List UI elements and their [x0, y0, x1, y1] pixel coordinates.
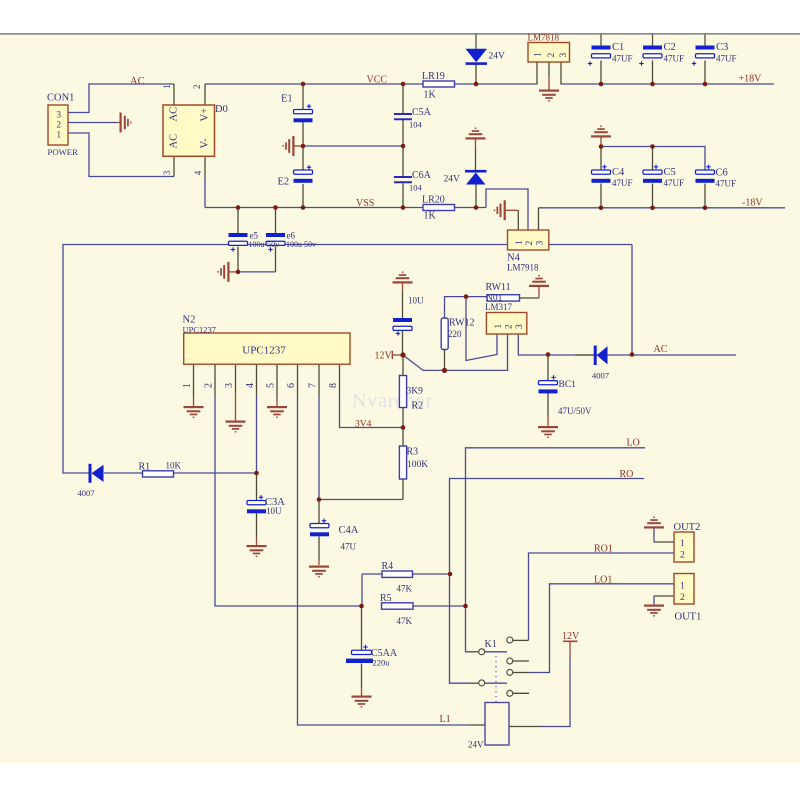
svg-text:1: 1	[57, 130, 62, 140]
resistor R2	[399, 376, 406, 408]
svg-text:47UF: 47UF	[612, 54, 633, 64]
LM7818 pin1 lead	[536, 62, 538, 85]
12V relay terminal stem	[569, 642, 571, 658]
C5AA ground stem	[361, 688, 363, 696]
svg-text:R3: R3	[407, 447, 419, 458]
svg-text:47UF: 47UF	[664, 54, 685, 64]
svg-text:C6: C6	[716, 168, 728, 179]
svg-text:10U: 10U	[408, 296, 424, 306]
R3 bottom lead	[402, 479, 404, 500]
svg-text:V+: V+	[199, 108, 210, 122]
svg-text:+18V: +18V	[739, 74, 763, 85]
svg-text:C4A: C4A	[339, 525, 359, 536]
wire AC detect long run	[63, 245, 632, 474]
svg-text:47UF: 47UF	[716, 54, 737, 64]
C4 bottom lead	[600, 184, 602, 208]
svg-text:R1: R1	[139, 462, 151, 473]
C1 bottom lead	[600, 61, 602, 85]
svg-text:3: 3	[162, 170, 172, 175]
svg-text:AC: AC	[654, 344, 668, 355]
ground N2 pin1	[184, 406, 204, 418]
e6 top lead	[275, 208, 277, 234]
svg-text:47U/50V: 47U/50V	[558, 406, 592, 416]
connector OUT1	[674, 574, 694, 605]
wire R4 left	[362, 573, 382, 575]
resistor LR19	[423, 81, 455, 87]
E2 top lead	[302, 146, 304, 170]
wire RW12 top to RW11	[445, 297, 487, 318]
top crop border gray line	[0, 33, 800, 35]
regulator N4 LM7918	[508, 230, 549, 250]
BC1 ground stem	[547, 415, 549, 426]
D2 ground stem	[475, 140, 477, 149]
D0 pin2 lead	[204, 84, 206, 105]
resistor RW12	[441, 318, 448, 350]
RW11 right lead	[520, 297, 540, 299]
C6A top lead	[402, 146, 404, 176]
D0 pin1 lead	[173, 84, 175, 105]
ground OUT1	[644, 605, 664, 617]
wire VSS rail	[205, 207, 486, 209]
svg-text:C5: C5	[664, 167, 676, 178]
diode D2 24V	[465, 170, 487, 185]
ground C5AA	[352, 696, 372, 708]
ground E1E2 mid (left-pointing)	[283, 136, 295, 156]
svg-text:12V: 12V	[375, 351, 393, 362]
wire K1 stub NC1	[513, 660, 529, 662]
svg-text:10K: 10K	[166, 461, 182, 471]
capacitor C2	[643, 46, 662, 58]
svg-text:K1: K1	[485, 639, 497, 650]
RW11 ground stem	[538, 287, 540, 298]
C5AA bottom lead	[361, 664, 363, 689]
wire VSS jog to N4 pin2	[486, 189, 528, 230]
svg-text:1: 1	[680, 539, 685, 549]
resistor LR20	[423, 205, 455, 211]
ground N2 pin5	[267, 406, 287, 418]
C2 bottom lead	[652, 61, 654, 85]
wire diode D3 to R1	[104, 472, 143, 474]
svg-text:1: 1	[534, 52, 544, 57]
wire CON1 pin1 to D0 pin3	[68, 133, 174, 177]
resistor RW11	[487, 295, 520, 301]
svg-text:C4: C4	[612, 167, 625, 178]
ground LM7818 pin2	[539, 90, 559, 102]
wire N2 pin8 3V4	[340, 396, 404, 428]
wire OUT1 pin2 to ground	[654, 595, 674, 597]
C4 ground stem	[600, 138, 602, 147]
N2 pin6 lead	[297, 364, 299, 396]
IC N2 UPC1237 box	[184, 333, 350, 364]
N2 pin8 lead	[339, 364, 341, 396]
wire K1 stub NC2	[513, 692, 529, 694]
ground above D2 (up-pointing)	[466, 128, 486, 140]
svg-text:LO: LO	[627, 438, 640, 449]
D1 top stub	[475, 34, 477, 49]
svg-text:6: 6	[286, 383, 297, 388]
wire 12V node diag bus to N1 pin2	[403, 334, 508, 370]
svg-text:3K9: 3K9	[407, 387, 424, 397]
C6 bottom lead	[704, 184, 706, 208]
R2 top lead	[402, 355, 404, 376]
ground C3A	[247, 545, 267, 557]
svg-text:104: 104	[409, 120, 423, 130]
e5 ground stem	[230, 271, 239, 273]
ground C4A	[309, 566, 329, 578]
capacitor C5A	[394, 114, 412, 119]
svg-text:OUT2: OUT2	[674, 522, 701, 533]
svg-text:4: 4	[245, 383, 256, 388]
svg-text:e5: e5	[250, 231, 259, 241]
LM7818 pin2 lead	[548, 62, 550, 76]
D2 bottom lead	[475, 185, 477, 208]
regulator N1 LM317	[486, 313, 526, 335]
ground e5e6 (left-pointing)	[218, 262, 230, 282]
C5 top lead	[652, 147, 654, 171]
N2 pin3 lead	[235, 364, 237, 392]
wire +18V rail right of LM7818	[561, 83, 774, 85]
wire RO run	[450, 479, 645, 684]
wire K1 throw2 to LO1	[529, 584, 675, 673]
diode D1 24V	[466, 49, 488, 65]
C4A bottom lead	[318, 537, 320, 560]
svg-text:2: 2	[680, 593, 685, 603]
D2 top lead	[475, 149, 477, 171]
svg-text:1: 1	[182, 383, 193, 388]
svg-text:CON1: CON1	[47, 93, 74, 104]
svg-text:C6A: C6A	[412, 170, 432, 181]
wire VCC rail left of LM7818	[205, 83, 537, 85]
svg-text:LM7918: LM7918	[507, 263, 539, 273]
svg-text:1: 1	[515, 240, 525, 245]
svg-text:C5A: C5A	[412, 107, 432, 118]
ground OUT2 (up-pointing)	[644, 517, 664, 529]
svg-text:LM317: LM317	[485, 302, 513, 312]
capacitor C3	[696, 46, 715, 58]
wire N2 pin6 down to relay coil	[298, 396, 471, 725]
svg-text:R4: R4	[382, 561, 394, 572]
svg-text:C2: C2	[664, 42, 676, 53]
N4 pin3 lead	[538, 208, 540, 230]
wire -18V rail	[539, 207, 786, 209]
N4 pin1 lead	[517, 210, 519, 230]
capacitor e6	[266, 233, 285, 245]
ground above 10U (up-pointing)	[393, 272, 413, 284]
wire R5 right	[413, 605, 466, 607]
svg-text:AC: AC	[130, 76, 145, 87]
svg-text:C3: C3	[716, 42, 728, 53]
diode D3 4007	[89, 464, 104, 483]
svg-text:100K: 100K	[407, 460, 428, 470]
wire R4-R5 left link	[361, 574, 363, 606]
svg-text:1: 1	[494, 324, 504, 329]
switch K1 contact T4	[507, 690, 513, 696]
svg-text:2: 2	[204, 383, 215, 388]
relay K1 actuator dashed line	[495, 656, 497, 702]
svg-text:100u 50v: 100u 50v	[286, 240, 316, 249]
12V terminal tick	[391, 351, 393, 359]
svg-text:47UF: 47UF	[612, 178, 633, 188]
svg-text:8: 8	[328, 383, 339, 388]
svg-text:24V: 24V	[489, 52, 506, 62]
e5 bottom lead	[237, 247, 239, 272]
svg-text:V-: V-	[199, 138, 210, 149]
10U cap top lead	[402, 292, 404, 318]
switch K1 contact T1	[507, 637, 513, 643]
switch K1 contact T3	[507, 669, 513, 675]
C6A bottom lead	[402, 184, 404, 208]
capacitor C1	[592, 46, 611, 58]
capacitor BC1	[539, 381, 558, 394]
switch K1 contact T2	[507, 658, 513, 664]
C5A bottom lead	[402, 120, 404, 146]
D1 bottom lead	[475, 64, 477, 84]
ground above C4 (up-pointing)	[591, 126, 611, 138]
capacitor C5AA	[346, 650, 373, 663]
R2 bottom lead	[402, 408, 404, 428]
svg-text:RW11: RW11	[486, 282, 511, 293]
D0 pin4 lead	[204, 156, 206, 178]
capacitor E2	[294, 170, 313, 183]
capacitor C6A	[394, 177, 412, 182]
svg-text:24V: 24V	[444, 175, 461, 185]
capacitor C6	[696, 170, 715, 183]
wire e5 e6 ground bus	[238, 271, 276, 273]
svg-text:E1: E1	[281, 94, 293, 105]
svg-text:47UF: 47UF	[716, 179, 737, 189]
svg-text:RO: RO	[620, 469, 634, 480]
svg-text:5: 5	[266, 383, 277, 388]
N2 pin3 ground stem	[235, 392, 237, 421]
svg-text:UPC1237: UPC1237	[183, 325, 217, 335]
wire CON1 pin3 to AC top	[68, 84, 174, 113]
svg-text:VCC: VCC	[367, 75, 388, 86]
svg-text:3: 3	[535, 241, 545, 246]
svg-text:220: 220	[448, 329, 462, 339]
svg-text:3V4: 3V4	[355, 420, 372, 430]
svg-text:7: 7	[308, 383, 319, 388]
LM7818 pin3 lead	[560, 62, 562, 85]
svg-text:3: 3	[57, 110, 62, 120]
wire N2 pin4 down	[256, 396, 258, 473]
wire pin7 to R3 bottom	[319, 499, 403, 501]
N2 pin1 lead	[193, 364, 195, 398]
wire K1 blade pole2	[485, 682, 507, 684]
switch K1 contact P2	[479, 680, 485, 686]
wire 12V to relay coil	[540, 658, 570, 727]
capacitor C5	[643, 170, 662, 183]
capacitor E1	[294, 110, 313, 123]
capacitor C4A	[310, 524, 329, 537]
wire N2 pin7 down	[318, 396, 320, 500]
12V relay terminal bar	[563, 640, 578, 642]
wire LO run	[466, 448, 646, 652]
svg-text:OUT1: OUT1	[675, 612, 702, 623]
C4 top lead	[600, 147, 602, 171]
svg-text:2: 2	[680, 551, 685, 561]
svg-text:RO1: RO1	[594, 544, 613, 555]
ground N4 pin1 (left-pointing)	[494, 200, 506, 220]
svg-text:2: 2	[525, 241, 535, 246]
10U cap bottom lead	[402, 331, 404, 356]
capacitor e5	[229, 233, 248, 245]
svg-text:POWER: POWER	[48, 147, 79, 157]
regulator U LM7818	[528, 43, 570, 63]
diode D4 4007	[594, 346, 608, 365]
svg-text:VSS: VSS	[356, 198, 374, 209]
svg-text:D0: D0	[215, 104, 228, 115]
C4A top lead	[318, 500, 320, 524]
svg-text:4007: 4007	[592, 371, 609, 381]
C2 top stub	[652, 34, 654, 46]
svg-text:2: 2	[192, 85, 202, 90]
C5A top lead	[402, 84, 404, 113]
N2 pin4 lead	[256, 364, 258, 396]
wire R4 right	[413, 573, 451, 575]
resistor R5	[382, 603, 414, 609]
svg-text:47U: 47U	[341, 542, 357, 552]
wire N1 pin3 to AC out	[518, 334, 736, 355]
BC1 top lead	[547, 355, 549, 381]
svg-text:47K: 47K	[397, 584, 413, 594]
C3A bottom lead	[256, 512, 258, 538]
bridge rectifier D0	[163, 105, 215, 156]
svg-text:LR19: LR19	[422, 71, 445, 82]
12V terminal stem	[393, 354, 404, 356]
svg-text:-18V: -18V	[742, 198, 763, 209]
svg-text:1K: 1K	[424, 90, 437, 101]
svg-text:R5: R5	[380, 593, 392, 604]
svg-text:3: 3	[224, 383, 235, 388]
svg-text:AC: AC	[169, 107, 180, 122]
resistor R3	[399, 446, 406, 479]
ground N2 pin3	[226, 421, 246, 433]
svg-text:12V: 12V	[562, 631, 580, 642]
svg-text:LO1: LO1	[594, 575, 612, 586]
wire D0 pin4 down	[204, 178, 206, 208]
svg-text:3: 3	[559, 53, 569, 58]
wire wiper node to N1 pin1	[466, 297, 497, 361]
N2 pin2 lead	[214, 364, 216, 396]
E1 top lead	[302, 84, 304, 110]
E1 bottom lead	[302, 122, 304, 147]
switch K1 contact P1	[479, 649, 485, 655]
svg-text:47K: 47K	[397, 616, 413, 626]
CON1 ground stem	[118, 122, 120, 124]
svg-text:C1: C1	[612, 42, 624, 53]
wire K1 throw1 to RO1	[529, 553, 675, 640]
R3 top lead	[402, 428, 404, 447]
resistor R1	[143, 471, 174, 477]
svg-text:E2: E2	[278, 177, 290, 188]
C5 bottom lead	[652, 184, 654, 208]
N2 pin5 ground stem	[276, 398, 278, 406]
wire C4 C5 C6 top bus	[601, 147, 705, 172]
capacitor 10U	[393, 318, 412, 330]
svg-text:2: 2	[504, 324, 514, 329]
svg-text:100u-50v: 100u-50v	[249, 240, 280, 249]
svg-text:BC1: BC1	[559, 380, 577, 390]
svg-text:4007: 4007	[78, 488, 95, 498]
svg-text:4: 4	[193, 170, 203, 175]
C4A ground stem	[318, 559, 320, 565]
svg-text:RW12: RW12	[449, 318, 475, 329]
connector OUT2	[674, 532, 694, 562]
svg-text:24V: 24V	[468, 740, 484, 750]
svg-text:2: 2	[57, 120, 62, 130]
ground RW11 right (up-pointing)	[529, 275, 549, 287]
N2 pin5 lead	[276, 364, 278, 398]
wire R1 to node	[174, 472, 257, 474]
relay coil L1	[485, 703, 509, 746]
capacitor C4	[592, 170, 611, 183]
svg-text:AC: AC	[169, 134, 180, 149]
ground CON1 pin2 (right-pointing)	[120, 113, 132, 133]
C3 top stub	[704, 34, 706, 46]
wire E-mid to C-mid node	[303, 145, 403, 147]
E1E2 mid ground stem	[295, 145, 304, 147]
C5AA top lead	[361, 606, 363, 650]
svg-text:10U: 10U	[266, 506, 282, 516]
C3 bottom lead	[704, 61, 706, 85]
E2 bottom lead	[302, 184, 304, 208]
svg-text:LM7818: LM7818	[528, 33, 560, 43]
wire OUT2 pin1 to ground	[654, 541, 674, 543]
RW12 bottom lead	[444, 350, 446, 371]
10U cap ground stem	[402, 284, 404, 293]
wire CON1 pin2 to ground	[68, 122, 118, 124]
e6 bottom lead	[275, 247, 277, 272]
svg-text:L1: L1	[440, 714, 451, 725]
D0 pin3 lead	[173, 156, 175, 177]
C3A top lead	[256, 473, 258, 501]
N2 pin1 ground stem	[193, 398, 195, 406]
svg-text:1: 1	[680, 582, 685, 592]
svg-text:e6: e6	[287, 231, 296, 241]
N2 pin7 lead	[318, 364, 320, 396]
capacitor C3A	[247, 501, 266, 514]
wire N2 pin2 down to R5	[215, 396, 362, 606]
wire AC detect vertical	[631, 245, 633, 355]
svg-text:UPC1237: UPC1237	[242, 345, 286, 357]
svg-text:2: 2	[547, 53, 557, 58]
N4 pin1 ground stem	[506, 209, 519, 211]
svg-text:R2: R2	[412, 401, 424, 412]
svg-text:3: 3	[515, 324, 525, 329]
svg-text:47UF: 47UF	[664, 178, 685, 188]
C3A ground stem	[256, 538, 258, 545]
ground BC1	[538, 426, 558, 438]
e5 top lead	[237, 208, 239, 234]
D4 leads	[575, 354, 594, 356]
svg-text:LR20: LR20	[422, 195, 445, 206]
BC1 bottom lead	[547, 393, 549, 416]
svg-text:1K: 1K	[424, 211, 437, 222]
C1 top stub	[600, 34, 602, 46]
svg-text:1: 1	[162, 85, 172, 90]
connector CON1	[48, 105, 68, 145]
wire K1 blade pole1	[485, 651, 507, 653]
LM7818 pin2 ground stem	[548, 76, 550, 90]
svg-text:220u: 220u	[373, 658, 391, 668]
svg-text:104: 104	[409, 183, 423, 193]
resistor R4	[382, 571, 413, 577]
D3 leads	[88, 472, 90, 474]
